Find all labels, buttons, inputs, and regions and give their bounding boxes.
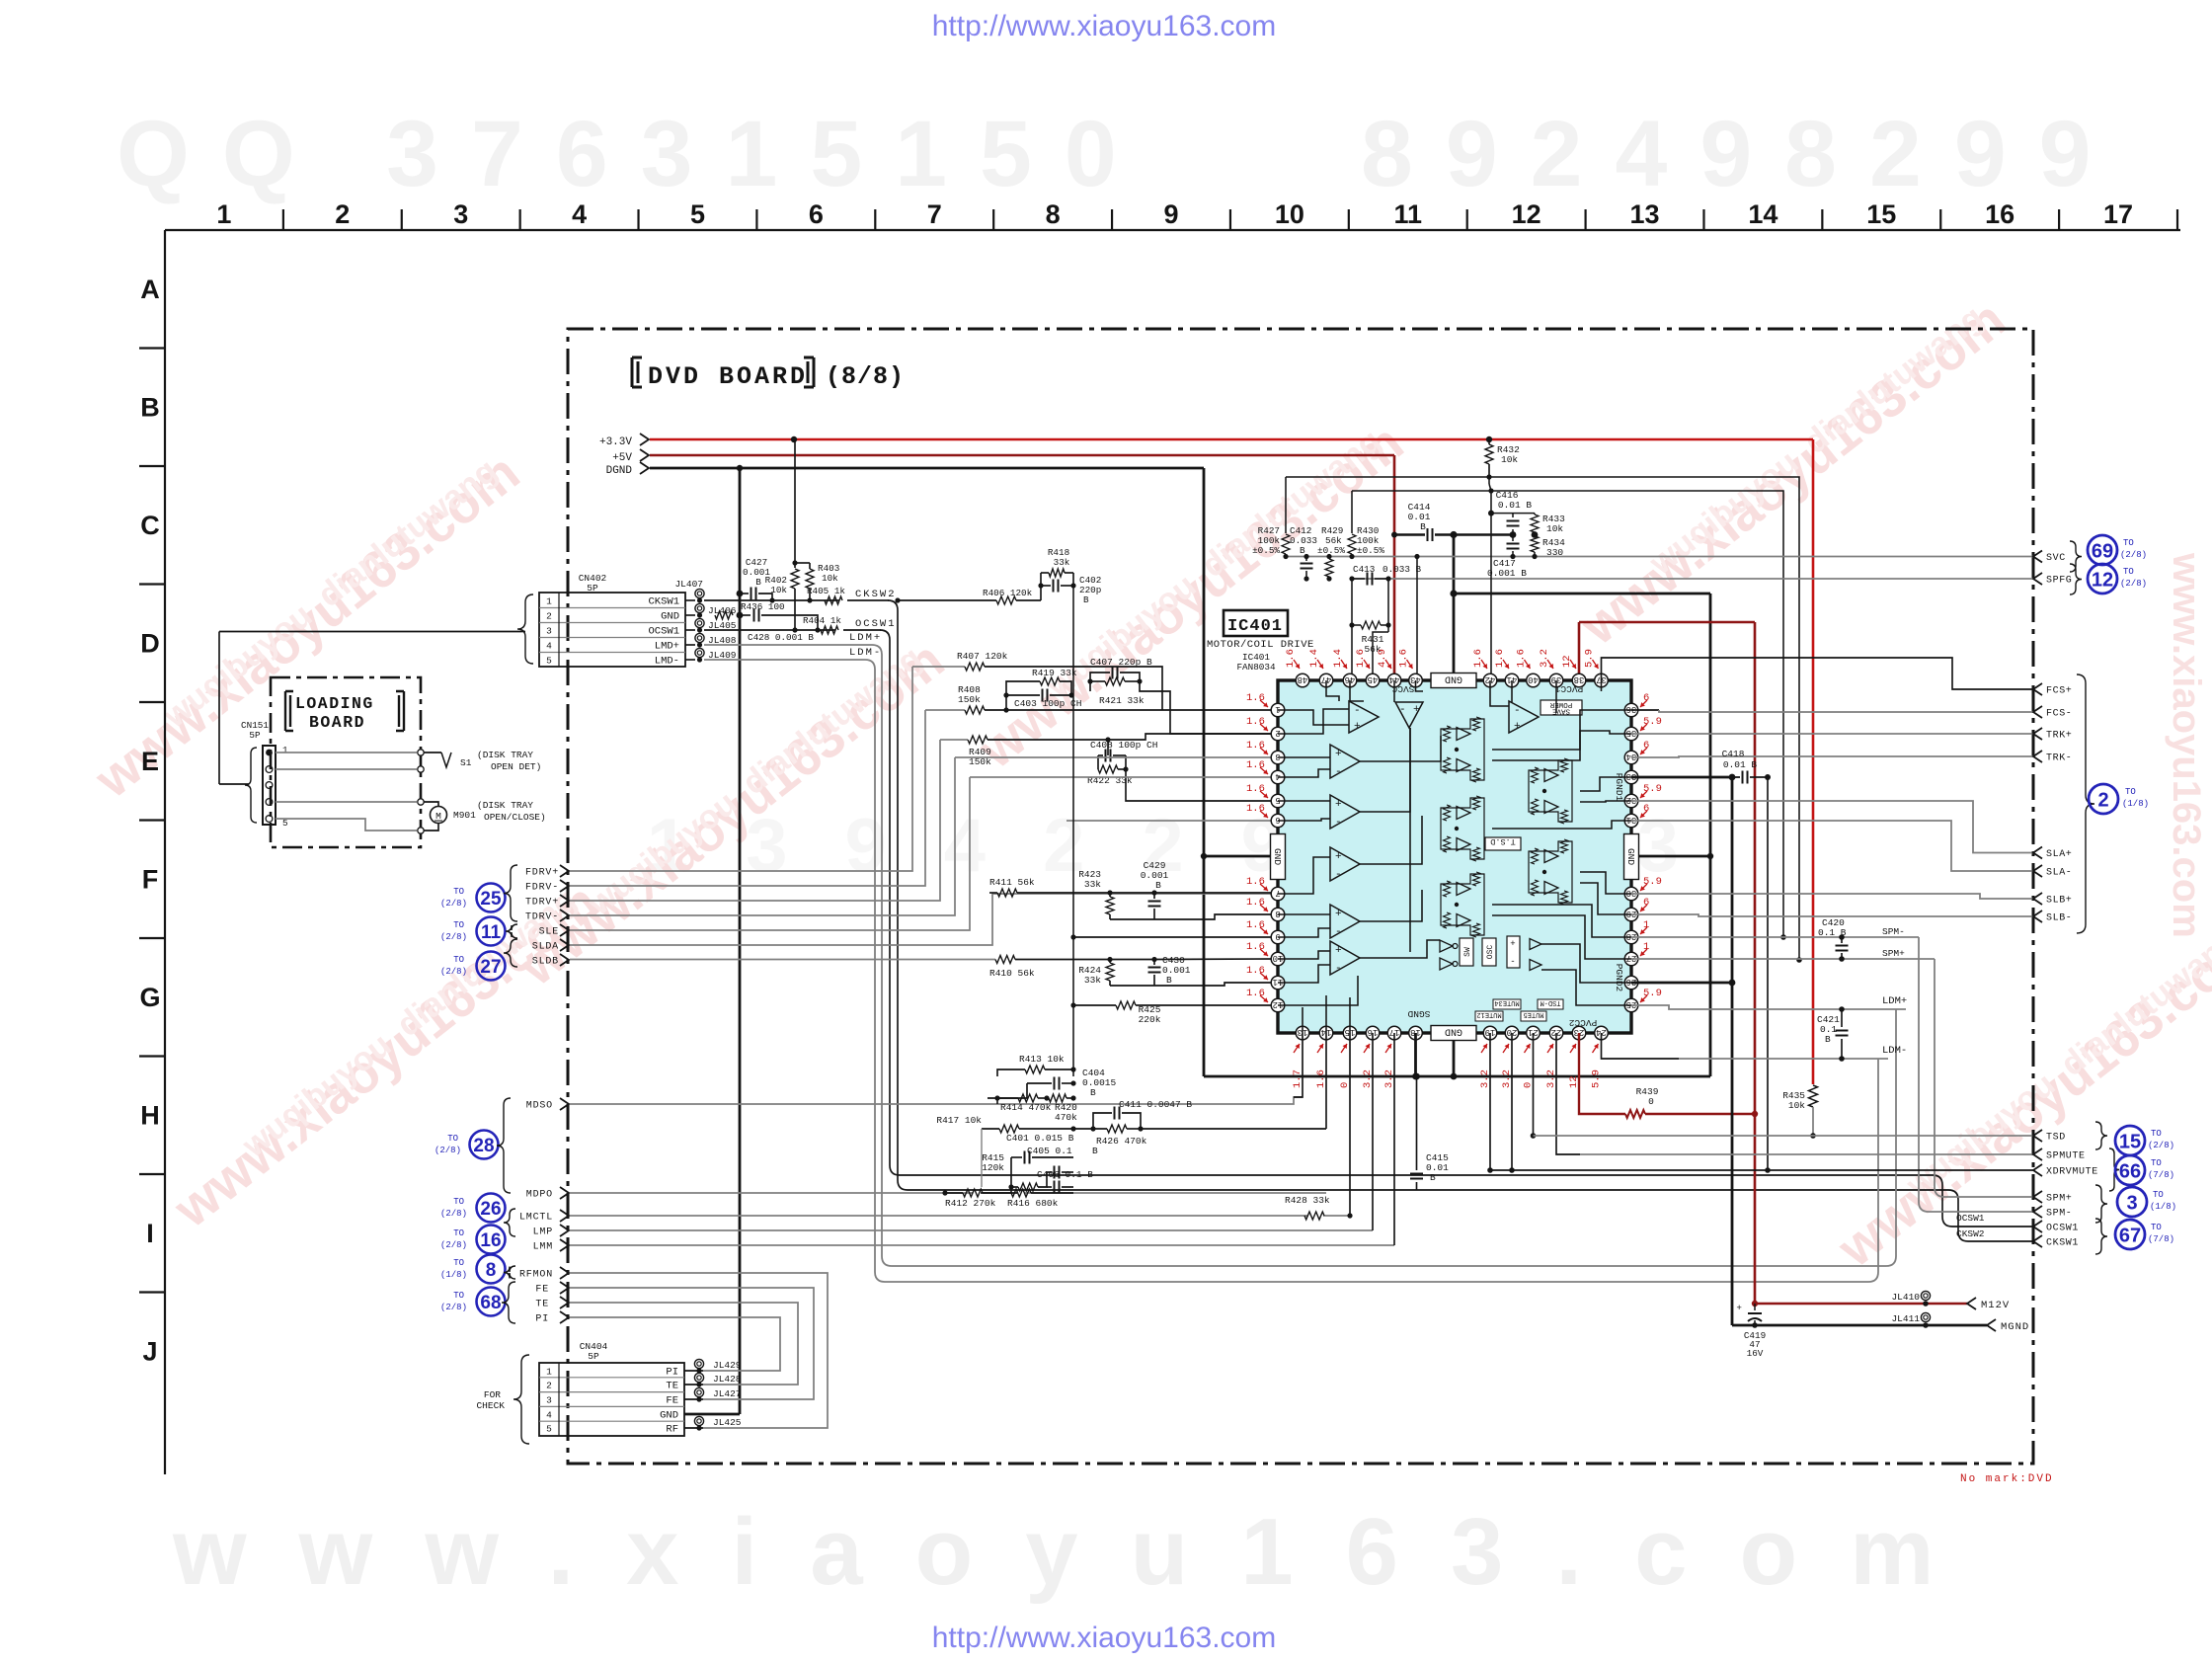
resistor R420 470k — [1049, 1094, 1066, 1102]
svg-text:29: 29 — [1626, 909, 1637, 918]
port LMM arrow — [560, 1239, 569, 1251]
svg-text:TO: TO — [453, 1258, 464, 1268]
svg-text:OCSW1: OCSW1 — [648, 626, 679, 638]
wire SVC line — [1286, 556, 2033, 558]
svg-text:OCSW1: OCSW1 — [1956, 1213, 1985, 1224]
resistor R435 10k — [1809, 1085, 1818, 1107]
wire pin16 run — [1372, 1033, 1374, 1230]
resistor R424 33k — [1107, 957, 1112, 962]
svg-text:1.6: 1.6 — [1494, 649, 1506, 668]
svg-text:JL425: JL425 — [713, 1417, 742, 1428]
wire pin9 staircase — [1070, 934, 1075, 939]
svg-text:5: 5 — [1275, 795, 1280, 805]
svg-text:0.033 B: 0.033 B — [1382, 564, 1421, 575]
svg-text:5P: 5P — [249, 730, 261, 741]
svg-text:9: 9 — [1163, 199, 1178, 229]
svg-text:MUTE34: MUTE34 — [1494, 998, 1519, 1006]
jumper JL405 — [695, 618, 704, 627]
wire row-C horizontal 497 — [1352, 491, 1783, 937]
blue ref circle 3 — [2117, 1187, 2147, 1217]
wire TDRV- run — [570, 757, 955, 915]
wire pin14 run — [1325, 1033, 1327, 1129]
blue ref circle 27 — [477, 952, 506, 981]
brace for 11 — [506, 924, 517, 938]
svg-text:SPM+: SPM+ — [2046, 1194, 2072, 1205]
resistor R426 470k — [1090, 1126, 1095, 1131]
capacitor C414 0.01 B — [1391, 532, 1397, 538]
svg-text:A: A — [140, 275, 160, 304]
svg-text:220k: 220k — [1139, 1014, 1161, 1025]
svg-text:4: 4 — [546, 641, 552, 652]
IC401 pin 40 — [1527, 673, 1540, 687]
IC401 pin 24 — [1595, 1026, 1609, 1040]
capacitor C413 0.033 B — [1349, 576, 1354, 581]
svg-text:2: 2 — [546, 611, 552, 622]
wire pin36 FCS- — [1631, 709, 1659, 711]
svg-text:T.S.D: T.S.D — [1490, 836, 1516, 846]
IC401 pin 6 — [1271, 814, 1285, 828]
node DGND right GND bar — [1707, 853, 1713, 859]
svg-text:C403 100p CH: C403 100p CH — [1014, 698, 1081, 709]
svg-text:TO: TO — [2125, 787, 2136, 797]
resistor R405 1k — [825, 596, 842, 604]
svg-text:120k: 120k — [982, 1162, 1004, 1173]
svg-text:S1: S1 — [460, 757, 472, 768]
svg-text:(2/8): (2/8) — [440, 1240, 467, 1250]
port TDRV- arrow — [560, 910, 569, 921]
IC401 pin 19 — [1483, 1026, 1497, 1040]
port SLDB arrow — [560, 954, 569, 966]
svg-text:LDM-: LDM- — [1882, 1045, 1907, 1057]
wire pin43 SVC vertical — [1416, 557, 1418, 675]
svg-text:4: 4 — [572, 199, 587, 229]
svg-text:(1/8): (1/8) — [2150, 1202, 2176, 1212]
IC401 pin 17 — [1387, 1026, 1401, 1040]
connector CN151 body — [263, 746, 276, 825]
port MDSO arrow — [560, 1098, 569, 1110]
IC401 pin 26 — [1624, 976, 1638, 990]
port XDRVMUTE arrow — [2033, 1164, 2042, 1176]
port SPM- arrow — [2033, 1206, 2042, 1218]
IC401 buffer 1 — [1530, 939, 1541, 950]
svg-text:+: + — [1413, 704, 1420, 716]
svg-text:TRK-: TRK- — [2046, 753, 2072, 764]
svg-text:3: 3 — [546, 626, 552, 637]
svg-text:SLDA: SLDA — [532, 942, 559, 953]
svg-text:32: 32 — [1626, 795, 1637, 805]
wire LMM run — [570, 1244, 1394, 1246]
svg-text:TO: TO — [2153, 1190, 2164, 1200]
svg-text:-: - — [1335, 926, 1342, 938]
wire TE run — [570, 1303, 798, 1385]
wire pin31 SLA- route — [1631, 821, 2033, 871]
svg-text:GND: GND — [1445, 673, 1462, 684]
IC401 pin 47 — [1319, 673, 1333, 687]
wire OCSW1 net — [704, 629, 835, 631]
resistor R430 100k — [1351, 491, 1353, 533]
svg-text:B: B — [755, 577, 761, 588]
svg-text:R410 56k: R410 56k — [989, 968, 1035, 979]
wire M12V red line — [1755, 1303, 1967, 1306]
frame column tick 12 — [1584, 209, 1586, 230]
svg-text:1: 1 — [1275, 704, 1280, 714]
svg-text:C407 220p B: C407 220p B — [1090, 657, 1152, 668]
wire MDPO run — [570, 1192, 973, 1194]
wire pin4 staircase — [970, 776, 1279, 778]
loading board title — [285, 691, 293, 731]
port MGND — [1987, 1319, 1996, 1331]
svg-text:LDM+: LDM+ — [1882, 995, 1907, 1007]
svg-text:RF: RF — [666, 1424, 678, 1436]
svg-text:1.4: 1.4 — [1308, 649, 1320, 668]
svg-text:±0.5%: ±0.5% — [1317, 545, 1345, 556]
svg-text:BOARD: BOARD — [309, 713, 365, 732]
port TSD arrow — [2033, 1130, 2042, 1142]
resistor R418 33k — [1041, 572, 1049, 574]
resistor R425 220k — [1116, 1001, 1136, 1009]
svg-text:C406 0.1 B: C406 0.1 B — [1037, 1169, 1093, 1180]
svg-text:1.6: 1.6 — [1472, 649, 1484, 668]
svg-text:-: - — [1399, 704, 1406, 716]
wire pin21 run — [1533, 1033, 1535, 1136]
svg-text:R416 680k: R416 680k — [1007, 1198, 1059, 1209]
port FDRV+ arrow — [560, 865, 569, 877]
svg-text:+3.3V: +3.3V — [599, 436, 632, 448]
svg-text:PI: PI — [535, 1314, 549, 1325]
svg-text:66: 66 — [2119, 1161, 2141, 1183]
wire pin35 TRK+ — [1631, 733, 2033, 735]
svg-text:1.6: 1.6 — [1355, 649, 1367, 668]
IC401 bridge B1 — [1441, 719, 1484, 780]
wire row-C horizontal 483 — [1286, 477, 1799, 960]
svg-text:XDRVMUTE: XDRVMUTE — [2046, 1167, 2098, 1178]
wire LMP run — [570, 1229, 1373, 1231]
capacitor C412 0.033 B — [1303, 554, 1308, 559]
svg-text:5.9: 5.9 — [1591, 1069, 1603, 1088]
svg-text:38: 38 — [1574, 674, 1585, 684]
svg-text:48: 48 — [1298, 674, 1308, 684]
svg-text:26: 26 — [480, 1199, 501, 1220]
wire pin27 SPM+ route — [1631, 958, 1935, 960]
blue ref circle 68 — [477, 1288, 506, 1316]
capacitor C427 0.001 B — [740, 593, 749, 594]
port FCS+ arrow — [2033, 683, 2042, 695]
svg-text:www.xiaoyu163.com: www.xiaoyu163.com — [172, 1499, 1986, 1605]
svg-text:C408 100p CH: C408 100p CH — [1090, 740, 1157, 751]
IC401 pin 39 — [1549, 673, 1563, 687]
brace SVC — [2070, 541, 2082, 572]
jumper JL408 — [695, 633, 704, 642]
svg-text:5.9: 5.9 — [1643, 876, 1662, 888]
IC401 pin 5 — [1271, 794, 1285, 808]
IC401 pin 25 — [1624, 998, 1638, 1012]
wire DGND vertical x1219 to IC GND bar — [1203, 468, 1206, 1076]
svg-text:M: M — [435, 811, 441, 822]
svg-text:0.1 B: 0.1 B — [1818, 927, 1847, 938]
svg-text:1: 1 — [282, 745, 288, 755]
svg-text:TO: TO — [453, 920, 464, 930]
IC401 top GND bar — [1431, 673, 1476, 688]
IC401 pin 31 — [1624, 814, 1638, 828]
svg-text:R405 1k: R405 1k — [807, 586, 845, 596]
wire CN402 rows to jumpers — [685, 599, 695, 601]
svg-text:892498299: 892498299 — [1361, 102, 2124, 206]
IC401 designator box — [1224, 610, 1288, 636]
wire pin13 run — [1294, 1033, 1303, 1097]
svg-text:11: 11 — [1273, 977, 1284, 987]
power +3.3V arrow — [640, 434, 649, 445]
jumper JL407 — [695, 589, 704, 597]
svg-text:FDRV-: FDRV- — [525, 883, 559, 894]
svg-text:QQ 376315150: QQ 376315150 — [117, 102, 1149, 206]
resistor R402 10k — [794, 439, 796, 568]
svg-text:R413 10k: R413 10k — [1019, 1054, 1065, 1065]
loading board dash-dot box — [271, 677, 421, 847]
capacitor C420 0.1 B — [1839, 934, 1845, 940]
svg-text:TO: TO — [453, 955, 464, 965]
svg-text:R412 270k: R412 270k — [945, 1198, 996, 1209]
wire FDRV- run — [570, 710, 925, 886]
svg-text:10: 10 — [1273, 953, 1284, 963]
svg-text:H: H — [140, 1100, 160, 1130]
resistor R412 270k — [942, 1190, 947, 1195]
wire CN151 pin2 to S1 — [276, 768, 417, 770]
port SLB+ arrow — [2033, 893, 2042, 905]
svg-text:12: 12 — [1273, 999, 1284, 1009]
frame row tick E/F — [139, 819, 165, 821]
svg-text:16V: 16V — [1747, 1348, 1764, 1359]
IC401 pin 23 — [1572, 1026, 1586, 1040]
frame column tick 5 — [755, 209, 757, 230]
svg-text:MUTE12: MUTE12 — [1476, 1010, 1501, 1018]
svg-text:(2/8): (2/8) — [440, 967, 467, 977]
IC401 op-amp A2 — [1330, 745, 1360, 778]
port SLB- arrow — [2033, 911, 2042, 922]
resistor R415 120k — [1011, 1186, 1018, 1188]
IC401 pin 42 — [1483, 673, 1497, 687]
svg-text:R417 10k: R417 10k — [936, 1115, 982, 1126]
svg-text:(1/8): (1/8) — [2122, 799, 2149, 809]
svg-text:16: 16 — [1985, 199, 2014, 229]
svg-text:R436 100: R436 100 — [741, 601, 785, 612]
brace TSD — [2095, 1122, 2107, 1149]
blue ref circle 28 — [470, 1131, 499, 1159]
IC401 pin 9 — [1271, 930, 1285, 944]
svg-text:LMP: LMP — [533, 1227, 553, 1238]
svg-text:http://www.xiaoyu163.com: http://www.xiaoyu163.com — [932, 1622, 1277, 1654]
svg-text:C401 0.015 B: C401 0.015 B — [1006, 1133, 1074, 1144]
frame column tick 16 — [2058, 209, 2060, 230]
svg-text:+5V: +5V — [612, 452, 632, 464]
wire SPFG line — [1352, 578, 2033, 580]
svg-text:OPEN/CLOSE): OPEN/CLOSE) — [484, 812, 546, 823]
svg-text:R426 470k: R426 470k — [1096, 1136, 1147, 1147]
svg-text:-: - — [1335, 963, 1342, 975]
IC401 TSD-M box — [1538, 999, 1563, 1009]
svg-text:5.9: 5.9 — [1643, 988, 1662, 999]
svg-text:www.xiaoyu163.com: www.xiaoyu163.com — [2165, 552, 2208, 938]
wire center vertical 1087 — [1072, 586, 1074, 1076]
svg-text:45: 45 — [1368, 674, 1379, 684]
svg-text:LMD+: LMD+ — [655, 641, 679, 653]
wire LDM+ net — [704, 644, 872, 646]
wire pin34 TRK- — [1631, 756, 2033, 757]
svg-text:7: 7 — [1275, 888, 1280, 898]
svg-text:30: 30 — [1626, 888, 1637, 898]
svg-text:MGND: MGND — [2001, 1321, 2029, 1333]
svg-text:7: 7 — [927, 199, 942, 229]
capacitor C408 100p CH — [1105, 737, 1110, 742]
svg-text:SLB-: SLB- — [2046, 913, 2072, 924]
svg-text:(2/8): (2/8) — [2120, 579, 2147, 589]
svg-text:R414 470k: R414 470k — [1000, 1102, 1052, 1113]
svg-text:wuqibuyou dianlutuwang: wuqibuyou dianlutuwang — [1899, 920, 2212, 1205]
port LMP arrow — [560, 1225, 569, 1236]
svg-text:FE: FE — [535, 1285, 549, 1296]
capacitor C403 100p CH — [1006, 694, 1040, 696]
svg-text:SLE: SLE — [539, 927, 559, 938]
IC401 pin 11 — [1271, 976, 1285, 990]
svg-text:33k: 33k — [1054, 557, 1070, 568]
resistor R414 470k — [987, 1097, 1018, 1099]
svg-text:M12V: M12V — [1981, 1300, 2010, 1311]
svg-text:TO: TO — [2123, 538, 2134, 548]
svg-text:LMM: LMM — [533, 1242, 553, 1253]
blue ref circle 25 — [477, 884, 506, 912]
wire pin20 run — [1511, 1033, 1513, 1170]
wire LDM- net — [704, 659, 865, 661]
wire CN404 GND to DGND bus — [684, 1413, 740, 1416]
capacitor C417 0.001 B — [1512, 535, 1514, 542]
port FDRV- arrow — [560, 880, 569, 892]
node +3.3V junction R402/R403 — [791, 436, 797, 442]
port PI arrow — [560, 1311, 569, 1323]
wire maroon PVCC link — [1579, 621, 1755, 624]
node DGND junction x749 — [737, 465, 743, 471]
svg-text:(8/8): (8/8) — [826, 362, 905, 391]
IC401 pin 1 — [1271, 703, 1285, 717]
svg-text:0.01 B: 0.01 B — [1498, 500, 1533, 511]
svg-text:G: G — [139, 983, 160, 1012]
capacitor C428 0.001 B — [740, 614, 750, 616]
svg-text:GND: GND — [660, 1410, 678, 1422]
svg-text:TO: TO — [453, 1291, 464, 1301]
svg-text:D: D — [140, 628, 160, 658]
brace SPFG — [2070, 564, 2082, 594]
svg-text:No mark:DVD: No mark:DVD — [1960, 1473, 2054, 1485]
svg-text:SPM-: SPM- — [1882, 926, 1905, 937]
IC401 right GND bar — [1624, 834, 1639, 880]
IC401 MUTE5 box — [1521, 1011, 1546, 1021]
svg-text:B: B — [1300, 545, 1305, 556]
IC401 pin 36 — [1624, 703, 1638, 717]
svg-text:-: - — [1510, 957, 1515, 967]
frame row tick I/J — [139, 1291, 165, 1293]
resistor R432 10k — [1486, 436, 1492, 442]
capacitor C415 0.01 B — [1416, 1076, 1418, 1170]
resistor R439 0 — [1625, 1110, 1645, 1118]
frame column tick 8 — [1111, 209, 1113, 230]
IC401 buffer 2 — [1530, 960, 1541, 971]
svg-text:3.2: 3.2 — [1539, 649, 1550, 668]
blue ref circle 15 — [2115, 1126, 2145, 1155]
svg-text:8: 8 — [1275, 909, 1280, 918]
jumper JL425 — [684, 1427, 703, 1429]
svg-text:OPEN DET): OPEN DET) — [491, 761, 541, 772]
svg-text:6: 6 — [1275, 815, 1280, 825]
IC401 op-amp A4 — [1330, 847, 1360, 881]
IC401 outline — [1278, 680, 1631, 1033]
port SPFG arrow — [2033, 573, 2042, 585]
wire pin3 staircase — [955, 756, 1279, 758]
svg-text:11: 11 — [1393, 199, 1422, 229]
svg-text:SLA-: SLA- — [2046, 868, 2072, 879]
node DGND to left GND bar — [1201, 853, 1207, 859]
svg-text:C428 0.001 B: C428 0.001 B — [748, 632, 814, 643]
svg-text:R411 56k: R411 56k — [989, 877, 1035, 888]
svg-text:1: 1 — [546, 596, 552, 607]
svg-text:(7/8): (7/8) — [2148, 1170, 2174, 1180]
svg-text:2: 2 — [1275, 728, 1280, 738]
resistor R431 56k — [1351, 579, 1353, 625]
svg-text:15: 15 — [2119, 1132, 2141, 1153]
jumper JL409 — [695, 648, 704, 657]
svg-text:TSD-M: TSD-M — [1540, 998, 1560, 1006]
wire pin42 sense vertical — [1490, 491, 1492, 674]
svg-text:C413: C413 — [1353, 564, 1375, 575]
svg-text:TE: TE — [666, 1381, 678, 1392]
svg-text:PI: PI — [666, 1367, 678, 1379]
svg-text:2: 2 — [335, 199, 350, 229]
svg-text:LDM-: LDM- — [849, 647, 882, 659]
svg-text:B: B — [1083, 594, 1089, 605]
IC401 pin 16 — [1366, 1026, 1380, 1040]
capacitor C405 0.1 B — [1047, 1171, 1052, 1173]
svg-text:TO: TO — [2151, 1158, 2162, 1168]
svg-text:TSD: TSD — [2046, 1133, 2066, 1144]
IC401 pin 8 — [1271, 908, 1285, 921]
svg-text:(2/8): (2/8) — [2120, 550, 2147, 560]
svg-text:CKSW2: CKSW2 — [1956, 1228, 1985, 1239]
wire pin19 run — [1489, 1033, 1491, 1170]
resistor R428 33k — [1304, 1212, 1324, 1220]
brace SPMUTE/XDRV — [2109, 1148, 2119, 1191]
IC401 pin 43 — [1409, 673, 1423, 687]
svg-text:-: - — [1514, 705, 1521, 717]
IC401 pin 7 — [1271, 887, 1285, 901]
svg-text:±0.5%: ±0.5% — [1252, 545, 1280, 556]
svg-text:(DISK TRAY: (DISK TRAY — [477, 750, 533, 760]
svg-text:28: 28 — [1626, 931, 1637, 941]
jumper JL411 — [1921, 1312, 1930, 1321]
brace for 25 — [504, 865, 517, 921]
resistor R436 100 — [715, 611, 733, 619]
IC401 pin 12 — [1271, 998, 1285, 1012]
IC401 bridge B2 — [1529, 760, 1572, 822]
svg-text:SPM+: SPM+ — [1882, 948, 1905, 959]
svg-text:F: F — [142, 864, 159, 894]
frame row tick C/D — [139, 583, 165, 585]
resistor R404 1k — [821, 626, 838, 634]
wire MGND line — [1732, 1324, 1987, 1327]
svg-text:SAVE: SAVE — [1552, 707, 1571, 715]
svg-text:SVC: SVC — [2046, 553, 2066, 564]
capacitor C407 220p B — [1090, 673, 1110, 681]
wire C418 down link — [1767, 777, 1769, 1170]
capacitor C402 220p B — [1041, 585, 1051, 587]
frame column tick 15 — [1939, 209, 1941, 230]
svg-text:B: B — [1090, 1087, 1096, 1098]
